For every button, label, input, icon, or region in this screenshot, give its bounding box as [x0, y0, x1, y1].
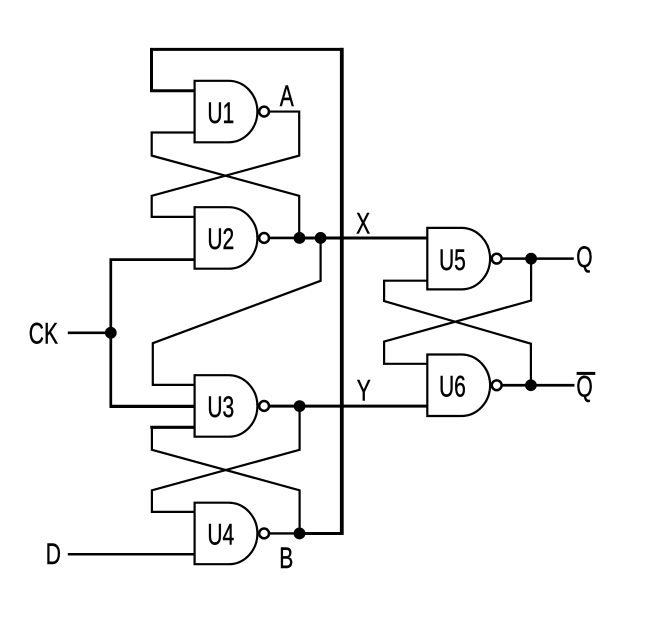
wire: CK branch down to U3 middle input — [109, 333, 112, 407]
Qbar overline — [577, 372, 596, 375]
nand gate U5 body — [427, 228, 490, 290]
nand gate U3 body — [195, 375, 258, 437]
junction dot CK — [105, 327, 117, 339]
svg-text:U4: U4 — [207, 519, 234, 551]
svg-text:A: A — [280, 81, 295, 113]
wire: net X main run to U5 input — [300, 236, 428, 239]
U1 output bubble — [259, 107, 269, 117]
svg-text:U6: U6 — [439, 371, 466, 403]
wire: CK branch up to U2 lower input — [111, 260, 195, 333]
wire: net A from U1 output to U2 upper input (cross coupling) — [152, 112, 300, 217]
svg-text:U3: U3 — [207, 392, 234, 424]
wire: U3 lower input stub — [150, 426, 194, 429]
wire: net Q from U5 output to Q terminal — [502, 257, 573, 260]
svg-text:Y: Y — [357, 375, 371, 407]
junction dot X right — [315, 232, 327, 244]
wire: net X branch down to U3 upper input — [153, 238, 321, 385]
U2 output bubble — [259, 233, 269, 243]
U6 output bubble — [492, 380, 502, 390]
wire: net Y main run from U3 output to U6 lower input — [270, 405, 427, 408]
wire: net Y branch down to U4 upper input (cross coupling) — [152, 406, 300, 512]
wire: D input lead to U4 — [68, 553, 195, 556]
svg-text:D: D — [46, 539, 61, 571]
wire: net Q branch down to U6 upper input (cross coupling) — [384, 259, 531, 364]
wire: net Qbar branch to U5 lower input (cross coupling) — [384, 281, 531, 386]
wire: CK input lead — [68, 331, 111, 334]
svg-text:CK: CK — [29, 318, 58, 350]
junction dot B — [294, 528, 306, 540]
junction dot X left — [294, 232, 306, 244]
svg-text:U1: U1 — [207, 97, 234, 129]
wire: net B branch to U3 lower input (cross coupling) — [152, 427, 300, 533]
wire: net X from U2 output dot to U1 lower input (cross coupling) — [152, 133, 300, 239]
svg-text:Q: Q — [576, 371, 592, 403]
wire: net B from U4 output dot up and over to U1 input — [152, 49, 342, 533]
nand gate U4 body — [195, 503, 258, 565]
nand gate U1 body — [195, 81, 258, 143]
U5 output bubble — [492, 254, 502, 264]
junction dot Q — [525, 253, 537, 265]
svg-text:Q: Q — [576, 241, 592, 273]
U4 output bubble — [259, 529, 269, 539]
svg-text:U5: U5 — [439, 244, 466, 276]
wire: U4 output stub to junction B — [270, 532, 300, 534]
wire: net Qbar from U6 output to Qbar terminal — [502, 384, 574, 387]
wire: net B long vertical riser — [340, 48, 344, 535]
svg-text:B: B — [279, 543, 293, 575]
svg-text:X: X — [356, 208, 370, 240]
svg-text:U2: U2 — [207, 224, 234, 256]
U3 output bubble — [259, 401, 269, 411]
junction dot Y — [294, 400, 306, 412]
nand gate U6 body — [427, 355, 490, 417]
junction dot Qbar — [525, 379, 537, 391]
wire: U2 output stub to junction — [270, 237, 300, 240]
nand gate U2 body — [195, 207, 258, 269]
